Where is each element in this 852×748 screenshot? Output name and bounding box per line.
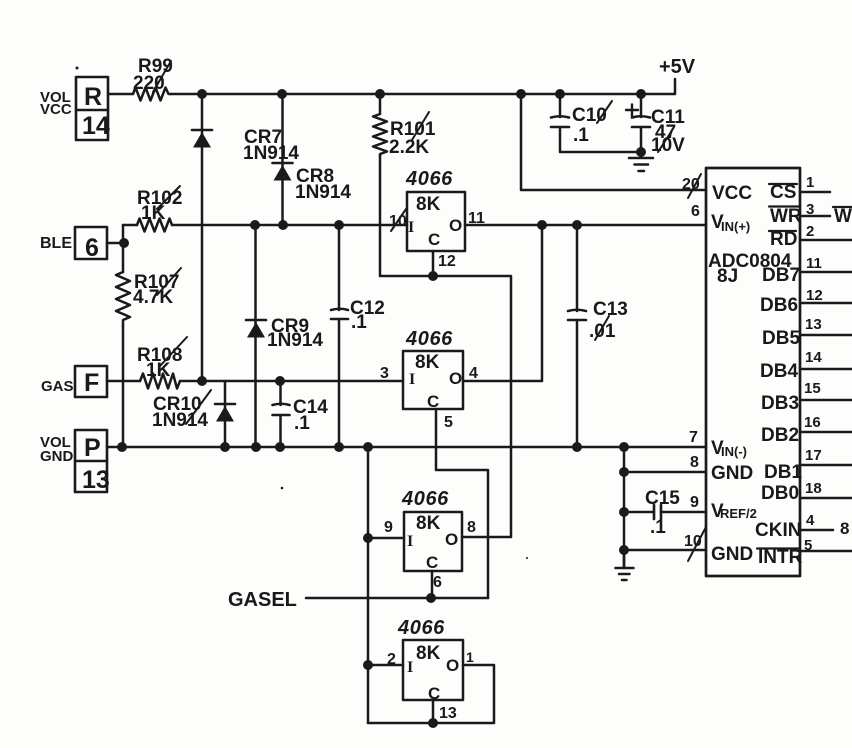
svg-text:9: 9 bbox=[384, 519, 393, 536]
svg-text:10V: 10V bbox=[651, 135, 685, 156]
svg-text:DB6: DB6 bbox=[760, 295, 798, 316]
svg-text:1: 1 bbox=[806, 174, 814, 191]
svg-text:+5V: +5V bbox=[659, 56, 696, 78]
svg-text:I: I bbox=[409, 371, 415, 388]
svg-text:DB3: DB3 bbox=[761, 393, 799, 414]
svg-text:6: 6 bbox=[433, 574, 442, 591]
svg-text:O: O bbox=[446, 656, 459, 675]
svg-text:8K: 8K bbox=[416, 643, 441, 664]
svg-text:INTR: INTR bbox=[758, 547, 803, 568]
svg-text:1N914: 1N914 bbox=[243, 143, 299, 164]
svg-text:C15: C15 bbox=[645, 488, 680, 509]
svg-text:3: 3 bbox=[806, 201, 814, 218]
svg-text:I: I bbox=[407, 659, 413, 676]
svg-text:CS: CS bbox=[770, 182, 796, 203]
svg-text:C: C bbox=[426, 553, 438, 572]
svg-text:16: 16 bbox=[804, 414, 821, 431]
svg-text:12: 12 bbox=[438, 253, 456, 270]
svg-text:F: F bbox=[84, 369, 99, 397]
svg-text:4066: 4066 bbox=[397, 617, 445, 639]
svg-text:1: 1 bbox=[466, 649, 474, 665]
svg-text:17: 17 bbox=[805, 447, 822, 464]
svg-text:8: 8 bbox=[690, 454, 699, 471]
svg-text:8K: 8K bbox=[416, 513, 441, 534]
svg-text:1K: 1K bbox=[141, 203, 166, 224]
svg-text:12: 12 bbox=[806, 287, 823, 304]
svg-text:8: 8 bbox=[840, 519, 849, 538]
svg-text:3: 3 bbox=[380, 365, 389, 382]
svg-text:O: O bbox=[449, 369, 462, 388]
svg-text:I: I bbox=[408, 219, 414, 236]
svg-text:4: 4 bbox=[806, 512, 815, 529]
svg-text:8J: 8J bbox=[717, 266, 738, 287]
svg-text:RD: RD bbox=[770, 229, 797, 250]
svg-text:.1: .1 bbox=[650, 517, 666, 538]
svg-text:2: 2 bbox=[387, 651, 396, 668]
svg-text:18: 18 bbox=[805, 480, 822, 497]
svg-text:C: C bbox=[428, 230, 440, 249]
svg-text:P: P bbox=[84, 434, 101, 462]
svg-text:10: 10 bbox=[389, 213, 407, 230]
svg-text:.01: .01 bbox=[589, 321, 616, 342]
svg-text:8K: 8K bbox=[415, 352, 440, 373]
svg-text:GAS: GAS bbox=[41, 378, 74, 395]
svg-text:4: 4 bbox=[469, 365, 478, 382]
svg-text:11: 11 bbox=[468, 210, 485, 227]
svg-text:11: 11 bbox=[806, 255, 822, 272]
svg-text:8: 8 bbox=[467, 519, 476, 536]
svg-text:5: 5 bbox=[444, 414, 453, 431]
svg-text:GND: GND bbox=[40, 448, 74, 465]
svg-text:DB5: DB5 bbox=[762, 328, 800, 349]
svg-text:20: 20 bbox=[682, 176, 700, 193]
svg-text:GND: GND bbox=[711, 463, 753, 484]
svg-text:7: 7 bbox=[689, 429, 698, 446]
svg-text:1K: 1K bbox=[146, 360, 171, 381]
svg-text:4066: 4066 bbox=[405, 328, 453, 350]
svg-text:C13: C13 bbox=[593, 299, 628, 320]
svg-text:R: R bbox=[84, 83, 102, 111]
svg-text:1N914: 1N914 bbox=[295, 182, 351, 203]
svg-text:WR: WR bbox=[834, 206, 852, 227]
svg-text:I: I bbox=[407, 533, 413, 550]
svg-text:IN(+): IN(+) bbox=[721, 219, 750, 234]
svg-text:2.2K: 2.2K bbox=[389, 137, 429, 158]
svg-text:4.7K: 4.7K bbox=[133, 287, 173, 308]
svg-text:15: 15 bbox=[804, 380, 821, 397]
svg-text:DB4: DB4 bbox=[760, 361, 798, 382]
svg-text:2: 2 bbox=[806, 223, 814, 240]
svg-text:C: C bbox=[427, 392, 439, 411]
svg-text:14: 14 bbox=[82, 112, 110, 140]
svg-text:13: 13 bbox=[82, 466, 110, 494]
svg-text:C: C bbox=[428, 684, 440, 703]
svg-text:DB2: DB2 bbox=[761, 425, 799, 446]
svg-text:REF/2: REF/2 bbox=[720, 506, 757, 521]
svg-text:VCC: VCC bbox=[40, 101, 72, 118]
svg-text:6: 6 bbox=[691, 203, 700, 220]
svg-text:.1: .1 bbox=[294, 413, 310, 434]
svg-text:1N914: 1N914 bbox=[267, 330, 323, 351]
svg-text:6: 6 bbox=[85, 234, 99, 262]
svg-text:DB0: DB0 bbox=[761, 483, 799, 504]
svg-text:O: O bbox=[445, 530, 458, 549]
svg-text:10: 10 bbox=[684, 533, 702, 550]
svg-text:CKIN: CKIN bbox=[755, 520, 801, 541]
svg-text:4066: 4066 bbox=[405, 168, 453, 190]
svg-text:DB1: DB1 bbox=[764, 462, 802, 483]
svg-text:13: 13 bbox=[439, 705, 457, 722]
svg-text:14: 14 bbox=[805, 349, 822, 366]
svg-text:BLE: BLE bbox=[40, 235, 72, 252]
svg-text:5: 5 bbox=[804, 537, 812, 554]
svg-text:1N914: 1N914 bbox=[152, 410, 208, 431]
svg-text:DB7: DB7 bbox=[762, 265, 800, 286]
svg-text:220: 220 bbox=[133, 73, 165, 94]
svg-text:VCC: VCC bbox=[712, 183, 752, 204]
svg-text:9: 9 bbox=[690, 494, 699, 511]
svg-text:O: O bbox=[449, 216, 462, 235]
svg-text:.1: .1 bbox=[351, 312, 367, 333]
svg-text:WR: WR bbox=[770, 206, 802, 227]
svg-text:GND: GND bbox=[711, 544, 753, 565]
svg-text:.1: .1 bbox=[573, 125, 589, 146]
svg-text:4066: 4066 bbox=[401, 488, 449, 510]
svg-text:GASEL: GASEL bbox=[228, 589, 297, 611]
svg-text:13: 13 bbox=[805, 316, 822, 333]
svg-text:IN(-): IN(-) bbox=[721, 444, 747, 459]
svg-text:8K: 8K bbox=[416, 194, 441, 215]
svg-text:C10: C10 bbox=[572, 105, 607, 126]
